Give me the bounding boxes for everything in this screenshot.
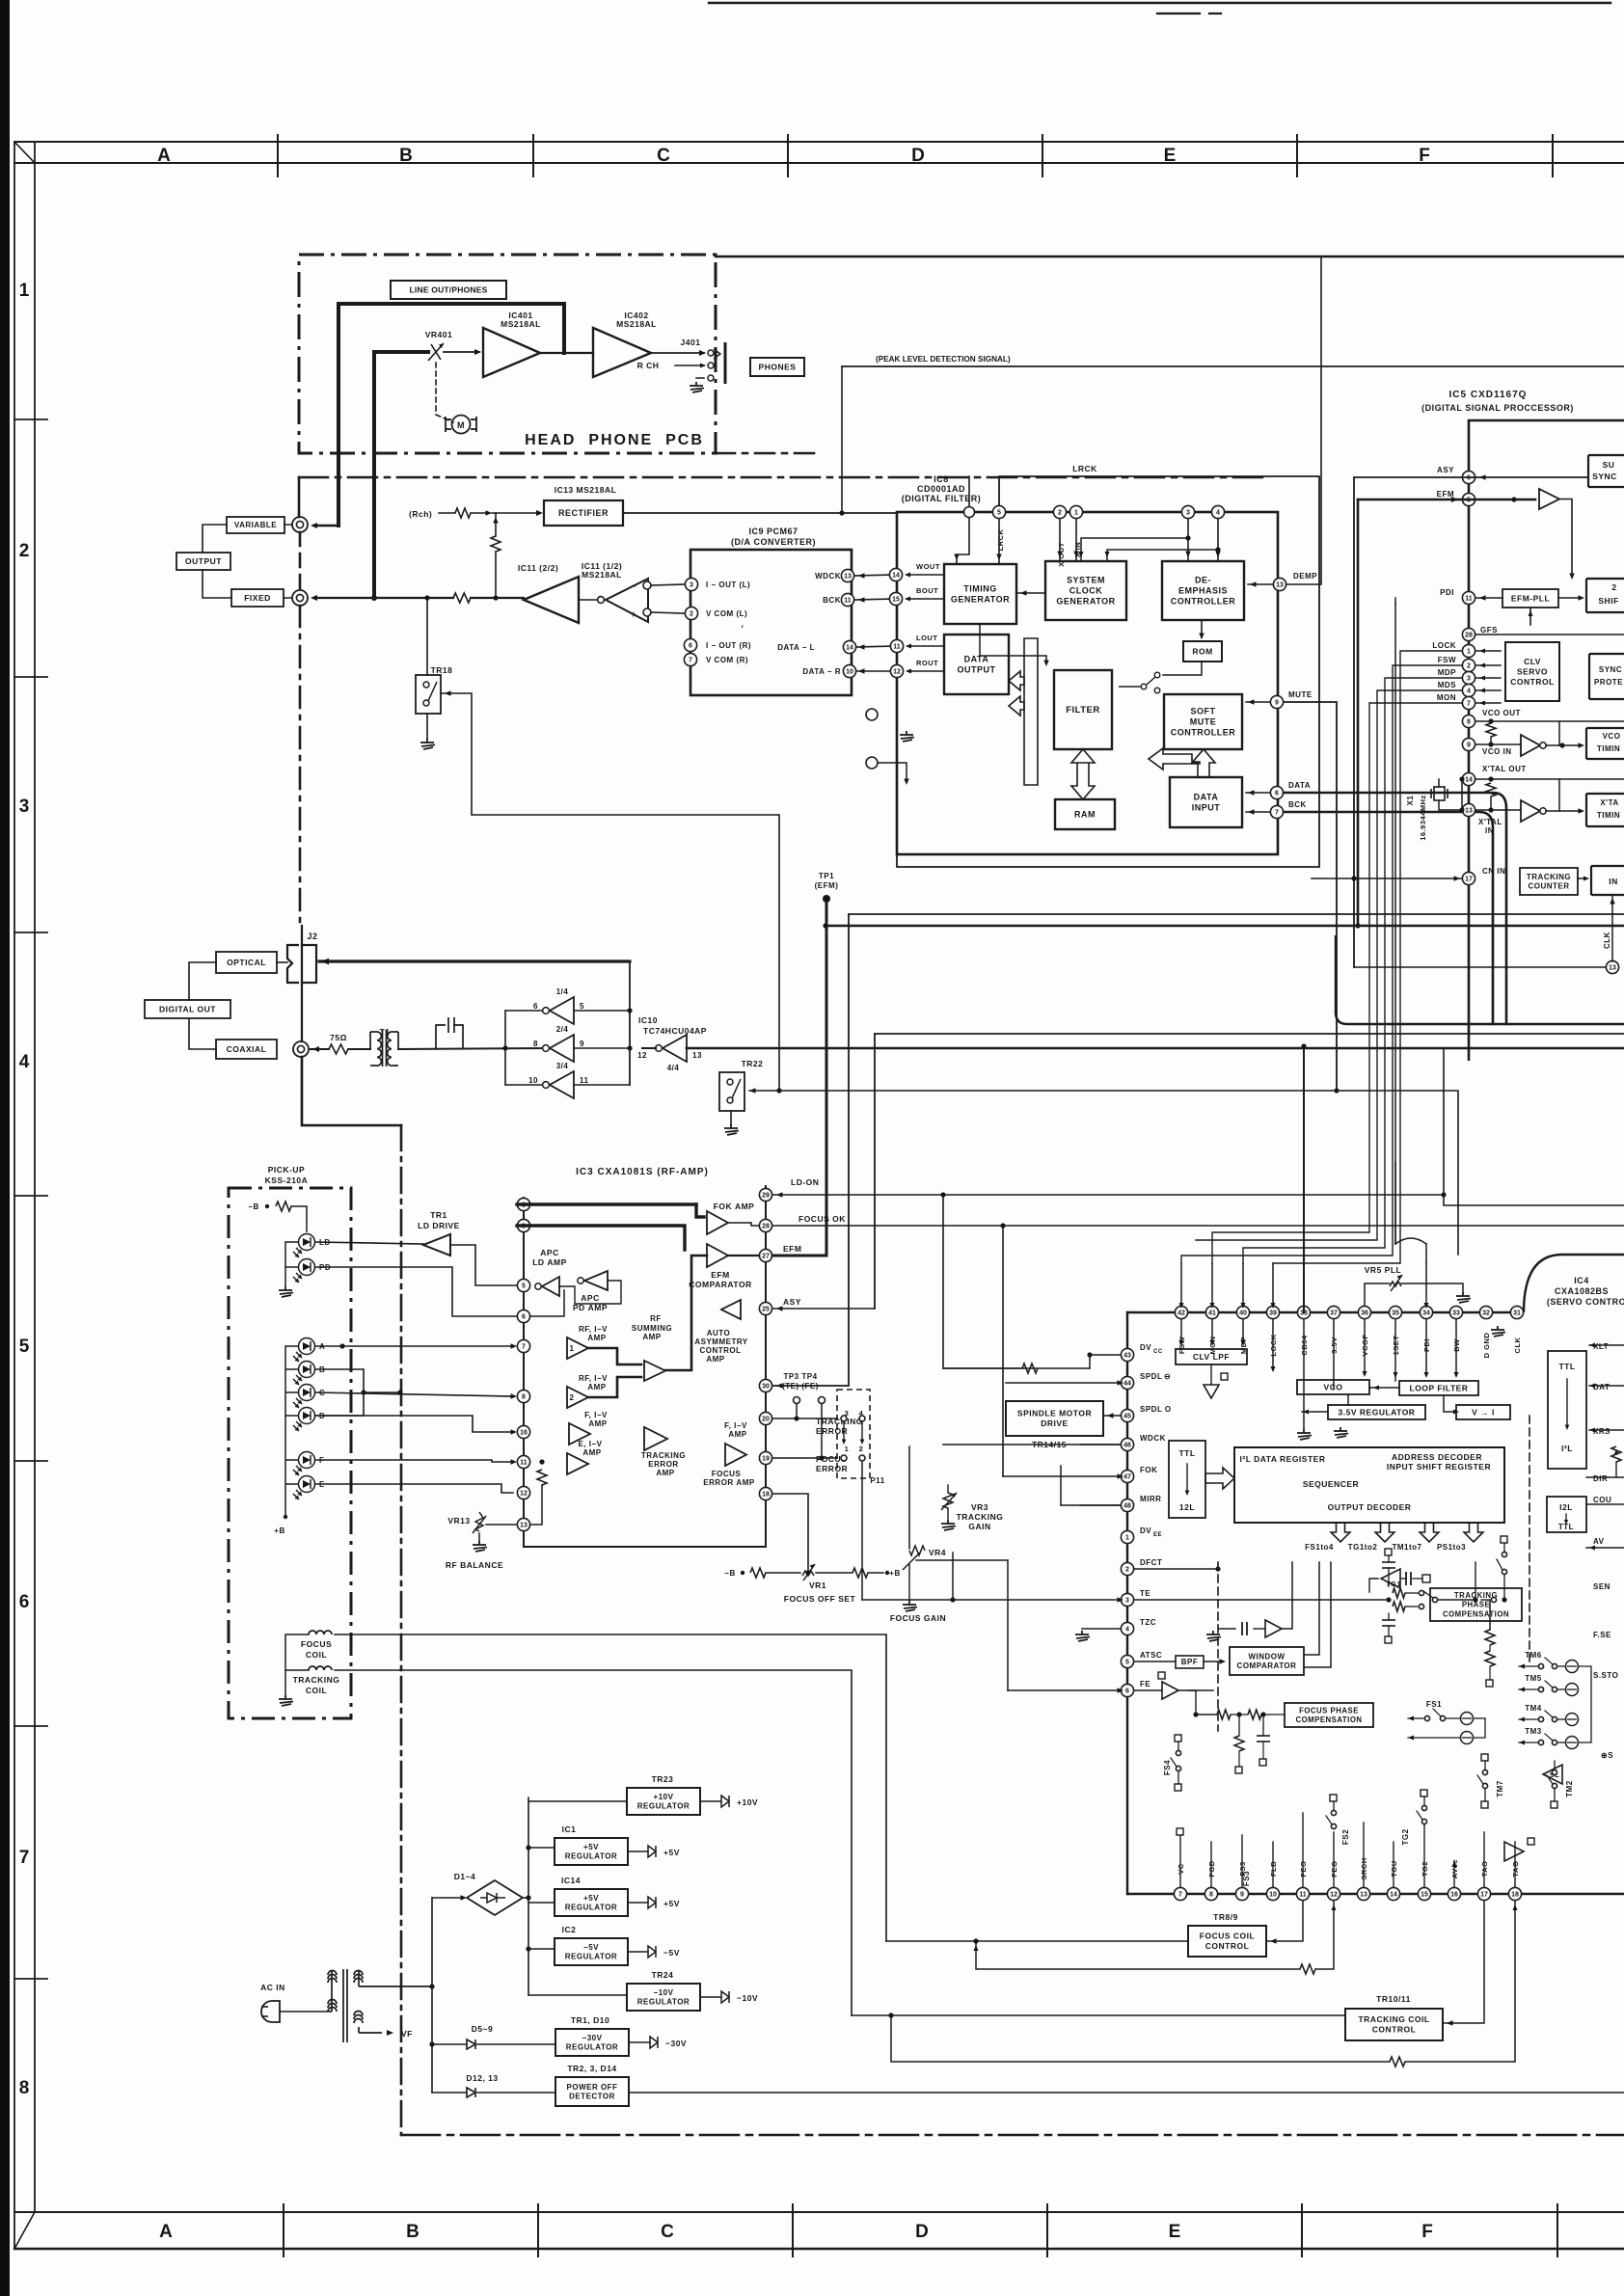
switch FS2 a <box>1331 1810 1336 1815</box>
pin 4 MDS <box>1462 684 1475 696</box>
wire FS2 row <box>1408 1737 1460 1739</box>
ground TR22 <box>724 1124 739 1135</box>
svg-text:43: 43 <box>1123 1353 1131 1360</box>
svg-text:DE-: DE- <box>1195 575 1211 584</box>
wire -30V out <box>629 2041 650 2043</box>
ground coils <box>279 1695 293 1706</box>
svg-text:4: 4 <box>1216 510 1220 517</box>
resistor line out <box>453 593 471 603</box>
wire rail to IC2 <box>528 1948 555 1950</box>
svg-text:−30V: −30V <box>582 2034 603 2042</box>
svg-text:GFS: GFS <box>1480 626 1498 635</box>
wire optical to digital out <box>189 962 216 1000</box>
junction <box>1502 1597 1506 1602</box>
pin 2 V COM L <box>685 607 697 619</box>
svg-text:I − OUT (L): I − OUT (L) <box>706 581 750 589</box>
wire loop filter to V-I <box>1444 1395 1456 1412</box>
resistor VCO <box>1486 723 1496 737</box>
switch FS2 lever <box>1326 1816 1332 1824</box>
svg-text:8: 8 <box>533 1040 538 1048</box>
wire TGU up <box>1393 1842 1394 1887</box>
svg-text:R CH: R CH <box>637 361 660 370</box>
svg-text:TM7: TM7 <box>1496 1780 1504 1797</box>
resistor TE upper <box>1393 1588 1405 1598</box>
svg-text:ADDRESS DECODER: ADDRESS DECODER <box>1392 1452 1482 1462</box>
wire LOCK down <box>1272 1319 1274 1369</box>
pin 32 D GND <box>1479 1306 1492 1318</box>
wire src common b <box>1474 1718 1485 1738</box>
pin 47 FOK <box>1121 1470 1133 1482</box>
diode arrow +5V <box>648 1846 656 1857</box>
wire VCOF to VR5 <box>1365 1283 1390 1306</box>
wire to D5-9 <box>432 2043 467 2045</box>
wire DATA-L <box>856 646 897 647</box>
wire +10V out <box>700 1800 721 1802</box>
pin 34 PDI <box>1420 1306 1432 1318</box>
svg-text:13: 13 <box>1276 582 1284 589</box>
switch TM7 a <box>1482 1769 1487 1774</box>
junction mute line <box>1334 1088 1339 1093</box>
svg-text:3: 3 <box>690 582 693 589</box>
wire cap up <box>1388 1555 1390 1562</box>
wire DFCT to dashed net <box>1134 1568 1218 1570</box>
svg-text:HEAD PHONE PCB: HEAD PHONE PCB <box>525 432 704 448</box>
pin 18 <box>759 1487 771 1499</box>
diode arrow +10V <box>721 1796 729 1807</box>
wire ASY riser <box>874 1034 876 1309</box>
wire branch down b <box>1238 1751 1240 1767</box>
svg-text:48: 48 <box>1123 1503 1131 1510</box>
svg-text:13: 13 <box>1465 808 1473 815</box>
pin 7 V COM R <box>684 653 696 665</box>
wire TG2 up <box>1423 1824 1425 1887</box>
label LINE OUT/PHONES <box>391 281 506 299</box>
row tick <box>14 1460 47 1462</box>
wire to pin3 <box>651 584 685 585</box>
wire FS4 down <box>1177 1771 1179 1784</box>
svg-text:−5V: −5V <box>663 1948 680 1958</box>
svg-text:TZC: TZC <box>1140 1618 1156 1627</box>
switch TM4 b <box>1552 1716 1556 1721</box>
arrowhead into J2 <box>321 959 329 965</box>
wire pin to CLV LPF <box>1180 1319 1182 1342</box>
switch TG1 contact dn <box>1419 1604 1423 1608</box>
switch FS2 b <box>1331 1823 1336 1828</box>
wire inverter input 2/4 <box>574 1047 630 1049</box>
op-amp IC401 <box>483 328 540 377</box>
svg-text:40: 40 <box>1239 1310 1247 1317</box>
wire photodiode commons <box>285 1346 298 1517</box>
wire pcb boundary bottom dashed <box>401 2134 1624 2137</box>
wire resistor to VCO IN <box>1490 737 1492 744</box>
svg-text:7: 7 <box>689 658 692 664</box>
svg-text:ASYMMETRY: ASYMMETRY <box>694 1337 747 1346</box>
diode arrow +5V b <box>648 1897 656 1908</box>
svg-text:31: 31 <box>1513 1310 1521 1317</box>
svg-text:TTL: TTL <box>1558 1362 1575 1371</box>
junction rectifier line <box>839 510 844 515</box>
wire to ground <box>284 1267 286 1286</box>
ground VR13 <box>473 1541 487 1552</box>
wire ttl arrow <box>1186 1464 1188 1493</box>
pin 3 <box>517 1219 529 1231</box>
wire pin4 to deemph <box>1217 519 1219 561</box>
block ROM <box>1183 641 1222 662</box>
wire clv pin 716 <box>1475 689 1501 691</box>
switch FS4 b <box>1176 1766 1180 1770</box>
pin 42 FSW <box>1175 1306 1187 1318</box>
svg-text:BPF: BPF <box>1181 1658 1199 1666</box>
svg-text:TRACKING COIL: TRACKING COIL <box>1358 2014 1429 2024</box>
wire TA- up <box>1514 1842 1516 1887</box>
svg-text:6: 6 <box>689 643 692 650</box>
svg-text:MIRR: MIRR <box>1140 1495 1161 1503</box>
wire inverter to xtal timing <box>1546 810 1582 812</box>
svg-text:16: 16 <box>520 1430 528 1437</box>
junction <box>1488 742 1493 746</box>
wire TAO up <box>1483 1832 1485 1887</box>
svg-text:TRACKING: TRACKING <box>293 1675 340 1685</box>
svg-text:(PEAK LEVEL DETECTION SIGNAL): (PEAK LEVEL DETECTION SIGNAL) <box>876 355 1011 364</box>
bus arrow filter to data output 2 <box>1009 696 1024 716</box>
svg-text:ASY: ASY <box>783 1297 801 1307</box>
svg-text:(EFM): (EFM) <box>815 881 839 890</box>
pin 9 FS3 <box>1235 1887 1248 1900</box>
svg-text:I2L: I2L <box>1559 1502 1573 1512</box>
wire DIR <box>1586 1476 1624 1478</box>
svg-text:A: A <box>157 146 171 166</box>
pin 9 MUTE <box>1270 695 1283 708</box>
svg-text:FOCUS GAIN: FOCUS GAIN <box>890 1613 946 1623</box>
wire between IC11 halves <box>579 599 597 601</box>
ic IC5 inner block outline <box>1336 935 1624 1024</box>
svg-text:32: 32 <box>1482 1310 1490 1317</box>
svg-text:LD AMP: LD AMP <box>532 1257 567 1267</box>
resistor tracking b <box>1485 1651 1495 1666</box>
svg-text:AMP: AMP <box>642 1333 661 1341</box>
svg-text:1: 1 <box>19 281 30 301</box>
svg-text:TRACKING: TRACKING <box>957 1512 1004 1522</box>
svg-text:IC5 CXD1167Q: IC5 CXD1167Q <box>1449 390 1528 400</box>
wire inverter input 3/4 <box>574 1084 630 1086</box>
wire clv pin 690 <box>1475 664 1501 666</box>
switch FS4 a <box>1176 1750 1180 1755</box>
block -10V regulator TR24 <box>627 1984 700 2011</box>
svg-text:TP1: TP1 <box>819 872 834 880</box>
transformer power <box>328 1969 432 2042</box>
wire BW to loop filter <box>1455 1319 1457 1374</box>
wire E to pin12 <box>315 1484 513 1493</box>
pin 14 WOUT <box>889 568 902 581</box>
pin 15 BOUT <box>889 592 902 605</box>
connector P11 dashed <box>837 1390 870 1478</box>
svg-text:1/4: 1/4 <box>556 987 569 996</box>
svg-text:PROTE: PROTE <box>1594 678 1623 687</box>
block VCO <box>1297 1380 1369 1394</box>
svg-text:17: 17 <box>1465 877 1473 883</box>
pin 11 BCK <box>841 593 853 606</box>
pin 39 LOCK <box>1266 1306 1279 1318</box>
arrowhead into J401 <box>699 350 706 356</box>
svg-text:PICK-UP: PICK-UP <box>268 1165 305 1175</box>
capacitor focus branch <box>1257 1736 1270 1742</box>
resistor LD bias <box>276 1202 291 1211</box>
amp TAO <box>1504 1842 1524 1861</box>
switch TG1 contact up <box>1419 1590 1423 1595</box>
ground spare a <box>900 731 914 742</box>
block +5V regulator IC14 <box>555 1889 628 1916</box>
svg-text:TM4: TM4 <box>1525 1704 1542 1713</box>
ground VR5 <box>1456 1292 1471 1303</box>
svg-text:⊕S: ⊕S <box>1601 1751 1613 1760</box>
svg-text:15: 15 <box>892 597 900 604</box>
wire to bridge <box>432 1897 463 1899</box>
wire LRCK loop <box>897 476 1319 867</box>
switch filter/rom select <box>1119 672 1160 693</box>
square pad SENS <box>1422 1575 1430 1582</box>
wire window comparator out <box>1304 1562 1319 1655</box>
switch TM5 b <box>1552 1687 1556 1691</box>
svg-text:FE: FE <box>1140 1680 1150 1688</box>
svg-text:REGULATOR: REGULATOR <box>566 2043 618 2052</box>
photodiode C C <box>293 1385 315 1409</box>
svg-text:REGULATOR: REGULATOR <box>565 1852 617 1861</box>
wire data output to ROUT <box>907 670 944 672</box>
pin 17 CN IN <box>1462 872 1475 884</box>
pin 19 FOCUS ERROR <box>759 1451 771 1464</box>
junction <box>1559 743 1564 747</box>
motor M401 <box>452 416 471 434</box>
svg-text:IC3 CXA1081S (RF-AMP): IC3 CXA1081S (RF-AMP) <box>576 1167 709 1177</box>
block I2L-TTL right <box>1547 1497 1586 1532</box>
svg-text:9: 9 <box>1467 743 1471 749</box>
svg-text:SPINDLE MOTOR: SPINDLE MOTOR <box>1017 1409 1092 1418</box>
wire riser to pin30 <box>772 914 849 1386</box>
svg-text:REGULATOR: REGULATOR <box>637 1998 690 2007</box>
wire to T1 <box>348 1048 370 1050</box>
svg-text:DETECTOR: DETECTOR <box>569 2093 615 2101</box>
block data output <box>944 635 1009 694</box>
svg-text:2: 2 <box>1058 510 1062 517</box>
wire BPF to comparator <box>1204 1661 1223 1662</box>
wire PDI to loop filter <box>1425 1319 1427 1374</box>
wire resistor to pin13 <box>530 1485 542 1525</box>
svg-text:11: 11 <box>580 1076 589 1085</box>
svg-text:KSS-210A: KSS-210A <box>265 1175 309 1185</box>
bus arrow data input up <box>1149 748 1200 770</box>
svg-text:FOCUS PHASE: FOCUS PHASE <box>1299 1706 1359 1715</box>
ground 3.5V reg <box>1334 1427 1348 1438</box>
svg-text:ROUT: ROUT <box>916 659 938 667</box>
wire RF1 to summing <box>588 1348 641 1364</box>
wire clv pin 729 <box>1475 702 1501 704</box>
wire rch <box>439 512 455 514</box>
svg-text:2: 2 <box>19 541 30 561</box>
ic IC3 left pin column <box>523 1198 525 1547</box>
junction EFM line <box>1355 923 1360 928</box>
svg-text:XLT: XLT <box>1593 1342 1609 1351</box>
svg-text:18: 18 <box>762 1492 770 1499</box>
wire TM5 <box>1519 1688 1538 1690</box>
svg-text:⊖: ⊖ <box>1164 1372 1171 1381</box>
junction <box>1087 1352 1092 1357</box>
wire FE buffer out <box>1178 1689 1213 1691</box>
wire EFM comp to pin27 <box>728 1255 759 1256</box>
wire DATA in <box>1246 792 1270 794</box>
wire xin to clockgen <box>1075 519 1077 561</box>
switch TG1 pole <box>1432 1597 1437 1602</box>
svg-text:TR2, 3, D14: TR2, 3, D14 <box>567 2064 616 2073</box>
wire pin13 to VR13 <box>486 1524 517 1526</box>
svg-text:ERROR: ERROR <box>816 1464 848 1473</box>
junction <box>1488 807 1493 812</box>
pin 3 <box>1181 505 1194 518</box>
wire branch down <box>1238 1715 1240 1736</box>
wire VR401 wiper dashed <box>436 363 453 422</box>
svg-text:RAM: RAM <box>1074 810 1096 820</box>
op-amp IC11 (1/2) <box>606 579 648 622</box>
wire CN IN <box>1312 878 1462 879</box>
ground VR4 <box>903 1601 917 1611</box>
wire lrck to timing <box>998 519 1000 564</box>
wire inverter input 1/4 <box>574 1010 630 1012</box>
switch TM2 lever <box>1547 1775 1553 1784</box>
wire tap to audio line <box>495 552 497 598</box>
ground <box>1075 1631 1090 1641</box>
junction <box>397 1390 402 1394</box>
test point TP1 <box>823 895 830 903</box>
switch b contact up <box>1502 1552 1506 1556</box>
diode D12 13 <box>467 2088 475 2097</box>
wire xtal feedback up <box>1558 779 1560 811</box>
wire tracking res feed <box>1489 1600 1491 1630</box>
pin 6 I-OUT R <box>684 638 696 651</box>
wire rail to IC1 <box>528 1847 555 1849</box>
wire TM5 to source <box>1557 1688 1565 1690</box>
svg-text:LINE OUT/PHONES: LINE OUT/PHONES <box>410 284 488 294</box>
arrow FE- up <box>1331 1904 1336 1910</box>
svg-text:REGULATOR: REGULATOR <box>565 1953 617 1961</box>
resistor <box>491 536 501 552</box>
wire VR4 wiper out <box>916 1559 1008 1561</box>
wire DVcc in <box>1090 1354 1121 1356</box>
svg-text:VR5 PLL: VR5 PLL <box>1365 1265 1401 1275</box>
wire pin to CLV LPF <box>1242 1319 1244 1342</box>
dashed boundary IC4 right internal <box>1529 1416 1530 1663</box>
wire DATA-R <box>856 670 897 672</box>
junction <box>1386 1597 1391 1602</box>
ic IC4 bottom pin row line <box>1127 1893 1624 1895</box>
svg-text:11: 11 <box>1299 1892 1307 1899</box>
svg-text:EFM-PLL: EFM-PLL <box>1511 593 1550 603</box>
switch TG1 lever <box>1423 1591 1433 1598</box>
head phone pcb dashed outline <box>299 255 716 453</box>
svg-text:TM6: TM6 <box>1525 1651 1542 1660</box>
amp FE buffer <box>1162 1682 1178 1699</box>
pin 18 TA&#8854; <box>1508 1887 1521 1900</box>
wire pin feed <box>1180 1263 1182 1306</box>
diode arrow -5V <box>648 1946 656 1958</box>
wire ROM to switch <box>1163 662 1202 675</box>
wire sens cap pad <box>1413 1578 1422 1580</box>
svg-text:V → I: V → I <box>1472 1407 1495 1417</box>
ic IC3 right pin column <box>765 1186 767 1547</box>
wire pcb dash edge vertical <box>299 532 302 590</box>
svg-text:C: C <box>657 146 670 166</box>
wire blank pin up <box>968 476 970 506</box>
svg-text:V COM (L): V COM (L) <box>706 609 747 618</box>
svg-text:8: 8 <box>522 1394 526 1401</box>
svg-text:25: 25 <box>762 1307 770 1313</box>
pin 48 MIRR <box>1121 1499 1133 1511</box>
junction <box>1215 547 1220 552</box>
svg-text:ROM: ROM <box>1192 646 1212 656</box>
svg-text:X′TAL OUT: X′TAL OUT <box>1482 765 1527 773</box>
wire focus coil control feed <box>886 1940 1188 1942</box>
pin 40 MDP <box>1236 1306 1249 1318</box>
label OUTPUT <box>176 553 230 570</box>
arrow DEMP <box>1250 581 1257 586</box>
pin 8 FGD <box>1204 1887 1217 1900</box>
wire coax jack feed <box>311 1048 329 1050</box>
svg-text:2: 2 <box>1611 582 1616 592</box>
wire PDI hop arc <box>1395 1238 1426 1244</box>
wire VR1 row c <box>868 1572 883 1574</box>
svg-text:4: 4 <box>1125 1627 1129 1634</box>
ruler band bottom-top line <box>14 2211 1624 2213</box>
pin 12 ROUT <box>890 664 903 677</box>
junction <box>819 1455 824 1460</box>
svg-text:VR1: VR1 <box>809 1580 826 1590</box>
ic IC8 CD0001AD digital filter <box>897 512 1278 854</box>
wire MON net <box>1212 703 1462 1263</box>
svg-text:DATA − L: DATA − L <box>777 643 815 652</box>
svg-text:SERVO: SERVO <box>1517 666 1548 676</box>
svg-text:COMPARATOR: COMPARATOR <box>689 1280 751 1289</box>
ground jack <box>690 382 704 392</box>
junction <box>805 1570 810 1575</box>
svg-text:CD0001AD: CD0001AD <box>917 484 965 494</box>
switch TM3 lever <box>1545 1734 1553 1741</box>
svg-text:30: 30 <box>762 1384 770 1391</box>
junction <box>424 595 429 600</box>
svg-text:ASY: ASY <box>1437 466 1454 474</box>
wire inverter output rail <box>504 1011 506 1085</box>
svg-text:3: 3 <box>1125 1598 1129 1605</box>
wire FE feed from VR4 <box>1008 1689 1121 1691</box>
wire MIRR from left <box>1061 1504 1121 1506</box>
label PHONES <box>750 358 804 376</box>
svg-text:X′TA: X′TA <box>1600 798 1618 807</box>
wire VCO to 3.5V reg <box>1347 1394 1349 1405</box>
pin 4 <box>1211 505 1224 518</box>
wire FEO up <box>1302 1813 1304 1887</box>
wire FOK to pin28 <box>728 1223 759 1226</box>
wire EFM long line <box>826 925 1624 928</box>
wire pin feed <box>1272 1263 1274 1306</box>
square pad TM7 <box>1481 1754 1488 1761</box>
label FIXED <box>231 589 284 607</box>
switch FS1 lever <box>1433 1709 1441 1716</box>
svg-text:TIMING: TIMING <box>963 583 997 593</box>
block RAM <box>1055 799 1115 829</box>
wire cross feed b <box>1107 550 1218 561</box>
photodiode PD PD <box>293 1259 315 1283</box>
switch FS1 b <box>1440 1715 1445 1720</box>
wire inverter out 1/4 <box>505 1010 542 1012</box>
svg-text:2: 2 <box>859 1445 864 1453</box>
wire R CH <box>675 365 704 366</box>
